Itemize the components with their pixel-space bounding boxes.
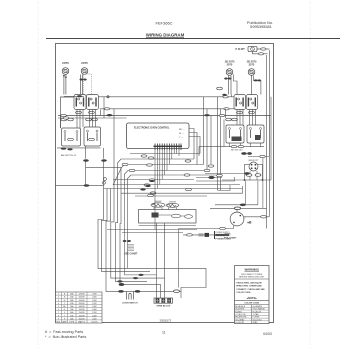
receptacle plug [249,162,258,171]
element inner wire [159,215,185,216]
wire long run down [268,116,270,157]
wire label L2 right [224,108,229,110]
svg-text:BEFORE SERVICING UNIT: BEFORE SERVICING UNIT [239,276,265,278]
GROUP: topright [217,46,270,190]
svg-text:WIRE THRU. STRIPE AND: WIRE THRU. STRIPE AND [236,285,262,288]
wire S4 pins down [250,110,256,126]
wire S2 to bus [101,97,105,118]
wire label R bottom b [238,145,243,147]
wire lamp return down [266,55,268,229]
wire label L1 right [223,96,228,98]
wire label LL bottom b [67,148,72,150]
wire label RR a [254,79,258,81]
note divider [235,300,270,302]
wire label above rbox1 [226,118,232,121]
wire below LL boxes [57,147,101,149]
receptacle frame [245,165,263,181]
svg-text:DOOR SWITCH: DOOR SWITCH [122,303,138,305]
svg-text:SEE CHART: SEE CHART [124,253,138,256]
wire label above box2-b [92,118,98,121]
wire label fan179 [149,179,155,181]
wire label right190 [186,188,192,190]
node drop b [127,240,131,242]
wire label LR a [80,79,84,81]
svg-text:33628173: 33628173 [160,319,172,323]
svg-text:⪪NOTE⪫: ⪪NOTE⪫ [247,296,258,300]
wire left verticals to switches [218,97,221,190]
wire recept left to bus [222,179,245,181]
wire cross y167 [86,166,122,168]
oven elements box [139,210,197,224]
GROUP: fanout [104,150,243,230]
wire bus v6 [120,190,161,298]
wire label bus276 b [133,277,138,279]
wire label RF a [224,78,228,80]
terminal block [154,298,173,303]
EOC comb pin drops [155,150,179,230]
svg-text:* = Non-Illustrated Parts: * = Non-Illustrated Parts [45,335,86,339]
wire S3 pins down [237,110,243,126]
wire label fan164 [122,163,128,165]
wire bus v3 [106,189,181,292]
svg-text:BK SW 240: BK SW 240 [231,150,243,152]
motor circle [230,212,244,226]
wire label right170 [204,169,210,171]
page rule [46,38,340,40]
wire y204 to right [215,204,258,206]
wire label right162 [185,160,191,162]
GROUP: topleft [61,61,99,128]
power cord line [183,234,215,236]
svg-text:WARNING: WARNING [244,267,259,271]
svg-text:BK —: BK — [179,129,186,131]
wire LL2 drop2 [85,161,87,185]
wire fan y184 [113,184,240,186]
receptacle inner legs [250,171,257,180]
wire fan y170 [125,171,208,191]
wire drop left of EOC [60,116,62,129]
svg-text:AB SWITCH 22: AB SWITCH 22 [61,154,77,157]
wire label bus start [101,159,107,161]
wire label R dark a [241,152,246,154]
wire label left of switches [217,87,223,90]
EOC connector strip [154,144,183,151]
wire bus start [103,148,105,159]
wire y193 [121,186,243,193]
infinite switch LR [87,95,99,110]
surface unit RF [226,69,233,76]
wiring chart rows [56,295,103,320]
element wire label b [185,215,193,219]
terminal pin 1 [156,298,160,302]
power cord thick lead [215,234,229,236]
wire label below S3 [237,111,243,113]
wire label below S2 [89,111,95,113]
svg-text:5995395581: 5995395581 [250,24,272,29]
wire recept feed down [262,158,264,209]
wire label fan196 [148,194,154,196]
wire terminal in b [164,223,166,298]
wire LR-a [80,75,82,95]
terminal pin 2 [161,298,165,302]
wire S1 pins down [77,110,83,129]
svg-text:TERM BLOCK: TERM BLOCK [156,305,170,307]
terminal marks LF [63,76,67,77]
coil stubs [154,207,177,210]
wire bus v5 [115,190,147,281]
wire label fan170 [129,169,135,171]
svg-text:COLOR CODE: COLOR CODE [244,303,259,305]
svg-text:04/03: 04/03 [263,332,272,336]
GROUP: buswires [58,95,271,171]
wire label LF-S1 [77,95,82,97]
wire label fan153b [148,157,154,159]
wire bus L1 [98,96,234,98]
wire label lamp1 [261,48,266,50]
perforation dots left [37,2,40,348]
svg-text:W —: W — [179,133,185,135]
svg-text:# = Fast-moving Parts: # = Fast-moving Parts [45,330,83,334]
wire LF to S1 [64,95,84,97]
wire below R boxes [199,147,264,156]
wire EOC right BK [189,129,194,160]
svg-text:2075: 2075 [62,61,69,65]
wire label term right [174,290,180,293]
wire label right166 [208,165,214,167]
wire label above box1-b [68,118,74,121]
wire label fan153a [141,155,147,157]
wire recept right out [263,97,272,180]
color table rows [235,307,270,321]
bake element [166,203,179,207]
wire elements drop a [125,190,157,275]
EOC box [127,123,190,149]
warning box frame [235,266,270,324]
wire LR-b [82,75,84,95]
wire label run4 [63,117,68,119]
wire label above box1-a [61,118,67,121]
wire label cord [187,234,193,236]
receptacle pin 3 [251,167,253,169]
wire fan y188 [104,188,243,190]
receptacle pin 2 [255,164,257,166]
wire label fan165b [147,164,153,166]
svg-text:2075: 2075 [227,63,233,67]
wire label lamp2 [258,53,263,55]
wire y181 [196,177,235,181]
wire recept feed [248,156,270,158]
wire label door right [135,290,140,292]
wire label run3 [219,114,224,116]
svg-text:3400W: 3400W [155,201,163,203]
wire border run y185 [56,184,104,186]
svg-text:P 40 WT: P 40 WT [236,48,246,51]
hidden bake element dark [152,213,159,218]
wire motor top [236,208,238,212]
svg-text:1200W1500W2000W2600W3400W1200W: 1200W1500W2000W2600W3400W1200W1500W2000W… [78,294,85,324]
svg-text:2075: 2075 [81,61,88,65]
wire label R bottom a [231,145,236,147]
node recept left [244,179,246,181]
color table divider [251,305,253,324]
wire fan y175 [128,175,218,190]
GROUP: leftbus [98,109,206,308]
wire label fan181d [149,180,155,182]
element wire label a [171,214,180,218]
wire fan y196 [135,195,207,197]
svg-text:TRACE WRG. AND EQUIP.: TRACE WRG. AND EQUIP. [236,281,262,284]
wire label door left [118,290,123,292]
wire door label top [119,283,124,285]
wire label above box2-a [86,118,92,121]
wire label run2 [107,114,113,116]
broil element [151,203,165,207]
terminal pin 3 [167,298,171,302]
connector outline LR [83,74,91,95]
wire RR-a [250,76,252,95]
wire long y229 [107,229,197,231]
wire short run to EOC [58,117,127,119]
svg-text:WIRING DIAGRAM: WIRING DIAGRAM [146,32,185,37]
wire far-left drop [61,97,75,128]
wire label below S4 [249,111,255,113]
GROUP: header [46,20,340,39]
receptacle pin 1 [251,164,253,166]
wire label run3 dark [204,114,209,116]
wire label above rbox1-b [232,118,238,121]
wire label RF b [228,78,232,80]
wire label RR b [257,79,261,81]
GROUP: frame [38,2,311,348]
connector rings [104,178,107,181]
motor pin a [240,215,242,217]
wire label fan175r [184,174,190,176]
title underline [146,36,184,38]
wire label R dark b [247,152,251,154]
GROUP: rightarea [121,50,271,228]
wire RF-b [230,76,232,95]
wire label L2 left [104,108,109,110]
wire label run1 [61,114,66,116]
wire LF-a [63,75,65,95]
wire bus L2 [100,108,236,110]
wire y190 [218,185,231,191]
wire y228 [178,228,234,230]
wire bus v4 [111,109,165,278]
wire label LL bottom [61,148,66,150]
wire label y185 [84,184,90,186]
wire fan y179 [113,179,194,181]
wire motor bottom [233,226,235,229]
wire label motor right [261,216,267,218]
wire label LR b [83,79,87,81]
GROUP: eoc [127,123,201,165]
wire lamp return [253,52,268,54]
perforation dots right [309,2,312,348]
wire label bus284 [119,283,124,285]
svg-text:11: 11 [162,331,166,335]
surface unit RR [248,69,255,76]
GROUP: warnbox [235,266,270,325]
door switch [127,291,134,299]
model note lines [225,234,231,236]
GROUP: lowerleftboxes [56,127,122,187]
node L1 junction [107,96,109,98]
switch box LL2 [84,127,101,146]
infinite switch RF [234,95,246,110]
oven switch box R1 [226,125,244,143]
infinite switch RR [246,95,258,110]
wire label fan188 [150,192,156,194]
wire label y204 [240,204,246,206]
cord plug dark [205,233,210,237]
wire block entry drop [177,230,179,288]
wiring chart frame [56,292,103,323]
node recept right [262,179,264,181]
wire LF-b [65,75,67,95]
wire label fan186d [145,185,151,187]
svg-text:ELECTRONIC OVEN CONTROL: ELECTRONIC OVEN CONTROL [134,127,170,130]
wire fan y159 [118,159,195,190]
wire S2 pins down [90,110,96,128]
wire R box pin stubs [230,143,261,147]
diagram border [56,44,274,323]
wire RR-b [253,76,261,95]
infinite switch LF [74,95,86,110]
wire S3 to bus [226,95,232,119]
svg-text:●B: ●B [247,221,252,225]
wire label below S1 [76,111,82,113]
svg-text:CONNECT. CHECK AND SEE: CONNECT. CHECK AND SEE [236,288,265,291]
wire bus v2 [102,189,151,272]
wire fan y164 [121,165,204,191]
wire fan y153 [130,153,200,155]
wire recept left leg down [245,181,247,205]
wiring chart columns [62,292,88,323]
surface unit LF [62,68,69,75]
wire EOC right W [189,133,197,165]
wire motor right [244,216,269,218]
wire recept right leg down [257,181,259,205]
GROUP: footer [45,319,272,340]
warning underline [245,270,260,272]
GROUP: lowerrightboxes [199,125,264,156]
wire y232 [122,232,183,234]
wire label fan184 [144,184,150,186]
svg-text:FEF366C: FEF366C [155,20,172,25]
switch box LL1 [62,128,81,146]
wire label fan189d [140,188,146,190]
wire label LL2 drop [83,159,89,161]
cord strain bar [214,231,216,239]
wire label y177 dark [209,176,215,179]
warning divider [235,278,270,280]
wire lamp main down [268,50,270,217]
wire y173 [205,173,246,175]
GROUP: lefttable [56,292,103,324]
model list lines [128,245,135,251]
wire terminal in a [156,223,158,298]
wire EOC right Y [189,137,200,154]
wire label bus281 [117,280,122,282]
cord ferrite [199,233,204,236]
surface unit LR [81,68,88,75]
wire elements drop b [127,190,129,268]
wire RF-c [233,74,237,94]
wire bus v1 [98,161,206,298]
receptacle pin 4 [255,167,257,169]
wire drops right mid [204,97,212,171]
wire label y173 dark [245,172,250,174]
GROUP: centerbottom [107,201,269,241]
oven switch box R2 [247,125,264,143]
wire RF-a [228,76,230,95]
wire long run above EOC [58,115,271,117]
wire label S3 left [222,94,226,96]
svg-text:SEE CHART: SEE CHART [224,237,237,240]
wire label y208 [234,207,240,210]
wire label recept feed [260,155,265,157]
svg-text:COLOR CODE.: COLOR CODE. [236,292,251,294]
wire LL2 drop [85,146,87,159]
wire label leg left [246,174,252,177]
node drop a [123,240,127,242]
wire label y228 [220,227,226,229]
svg-text:2075: 2075 [249,63,255,67]
wire label y175 left [217,174,223,176]
wire lamp to right [257,48,270,50]
wire y208 to right [210,207,267,209]
color code header line [235,304,270,306]
wire label leg right [255,174,261,177]
wire label bus276 a [138,274,143,276]
wire diag left [113,168,122,186]
wire drop x224 [223,120,225,147]
oven lamp [248,46,257,51]
wire y177 [196,177,222,179]
wire below elements [139,225,197,227]
motor pin b [233,222,235,224]
